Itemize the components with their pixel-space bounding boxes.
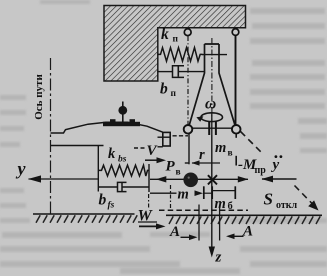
svg-text:пр: пр — [255, 165, 267, 176]
svg-text:S: S — [264, 190, 273, 209]
rotation direction arc — [201, 113, 223, 122]
axle fork bar left — [208, 122, 210, 136]
pin through flask neck — [202, 54, 227, 56]
pivot hanger circle left (on beam) — [184, 29, 191, 36]
left hanger rod (dash-dot) — [187, 36, 189, 125]
main horizontal force line through ball and center — [150, 178, 248, 180]
damper b_p cylinder — [173, 66, 185, 78]
amplitude line left — [198, 205, 200, 241]
damper b_fs cylinder — [118, 182, 127, 191]
spring k_bs (ballast lateral stiffness) — [98, 165, 149, 176]
svg-text:bs: bs — [118, 155, 127, 165]
rail clamp left — [110, 119, 116, 122]
svg-text:r: r — [199, 147, 205, 163]
frame horizontal line to spring wall — [51, 145, 104, 147]
A left arrow — [181, 236, 192, 238]
V velocity arrow — [145, 159, 159, 161]
svg-text:y: y — [271, 157, 280, 173]
rail sleeper bar — [103, 122, 140, 126]
right spring wall — [148, 164, 150, 192]
frame end box at right of profile — [163, 132, 170, 146]
svg-text:откл: откл — [276, 200, 298, 211]
short line between ticks — [204, 192, 212, 194]
damper b_p rod left — [158, 71, 173, 73]
pivot hanger circle right (on beam) — [232, 29, 239, 36]
damper b_p rod right to flask — [178, 71, 204, 73]
y axis arrowhead — [28, 175, 41, 182]
left spring wall — [97, 146, 99, 192]
axle center stub — [211, 112, 213, 135]
rail clamp right — [130, 119, 136, 122]
fixed support: hatched ceiling beam and left wall block — [104, 6, 246, 82]
right ground line — [166, 214, 322, 216]
svg-text:P: P — [166, 159, 176, 175]
eccentric mass ball — [183, 173, 198, 188]
axle marker pin — [122, 102, 124, 122]
W resistance arrow — [139, 225, 158, 227]
svg-text:fs: fs — [108, 201, 115, 211]
axle fork bar right — [215, 122, 217, 136]
svg-text:п: п — [173, 35, 179, 45]
stub below right lower pivot — [235, 134, 237, 138]
svg-text:k: k — [161, 26, 169, 43]
dimension tick at right rod — [234, 186, 236, 199]
vibrator flask body — [189, 44, 235, 125]
flask center axis (dash-dot) — [211, 38, 213, 120]
P_v arrowhead (pointing left) — [156, 176, 167, 182]
m_b dimension line — [212, 190, 235, 192]
damper b_fs rod right — [122, 186, 149, 188]
track axis (dash-dot vertical) — [50, 58, 52, 214]
rotation centre cross — [208, 175, 217, 184]
z axis arrowhead — [209, 247, 215, 258]
lower pivot circle left — [184, 125, 193, 134]
dashed deflection trajectory with arrow — [241, 132, 264, 155]
spring k_p (horizontal zigzag from wall to flask neck) — [158, 48, 203, 62]
y axis line — [29, 178, 99, 180]
svg-text:m: m — [215, 140, 226, 156]
svg-text:в: в — [176, 168, 181, 178]
svg-text:Ось пути: Ось пути — [33, 74, 45, 120]
svg-text:m: m — [178, 187, 189, 203]
m leader arrow to centre tick — [195, 192, 200, 194]
damper b_fs piston — [121, 183, 123, 191]
dashed ground reference line — [159, 209, 248, 211]
svg-text:A: A — [242, 224, 253, 240]
svg-text:п: п — [171, 89, 177, 99]
svg-text:A: A — [169, 224, 180, 240]
lower pivot circle right — [232, 125, 241, 134]
right hanger rod — [235, 36, 237, 126]
r dimension line with arrow — [192, 162, 220, 164]
svg-text:y: y — [16, 159, 27, 179]
shelf line under frame box — [158, 146, 163, 148]
svg-text:k: k — [108, 146, 116, 162]
dash-dot drop line below right spring wall — [148, 194, 150, 209]
svg-text:ω: ω — [205, 96, 216, 113]
right ground hatching — [169, 216, 320, 224]
A right arrow — [232, 235, 244, 237]
acceleration arrow (pointing left) — [262, 178, 297, 180]
damper b_fs rod left — [98, 186, 117, 188]
reference line below left lower pivot — [188, 134, 190, 165]
svg-text:b: b — [99, 192, 107, 209]
damper b_p piston — [177, 67, 179, 77]
svg-text:в: в — [228, 149, 233, 159]
link bar between lower pivots — [188, 127, 236, 129]
svg-text:b: b — [160, 81, 168, 98]
tick on right rod line above -M_pr — [235, 156, 237, 166]
W underline — [138, 221, 157, 223]
dimension tick at centre axis — [211, 186, 213, 199]
amplitude line right — [219, 208, 221, 241]
dashed link from frame box to hanger rod — [173, 135, 189, 137]
z axis line — [211, 135, 213, 249]
dimension tick at x=203.8 — [203, 186, 205, 199]
arrowhead of centrifugal force (pointing right) — [238, 176, 249, 182]
left ground hatching — [36, 215, 137, 223]
piston rod into frame box — [158, 136, 171, 138]
axle marker ball — [118, 106, 127, 115]
dash-dot drop line below P_v — [170, 185, 172, 210]
ballast section profile — [51, 122, 163, 133]
m leader line left segment — [150, 192, 177, 194]
svg-text:z: z — [215, 250, 222, 266]
left ground line — [33, 213, 135, 215]
dashes between k_bs and V — [134, 147, 147, 149]
